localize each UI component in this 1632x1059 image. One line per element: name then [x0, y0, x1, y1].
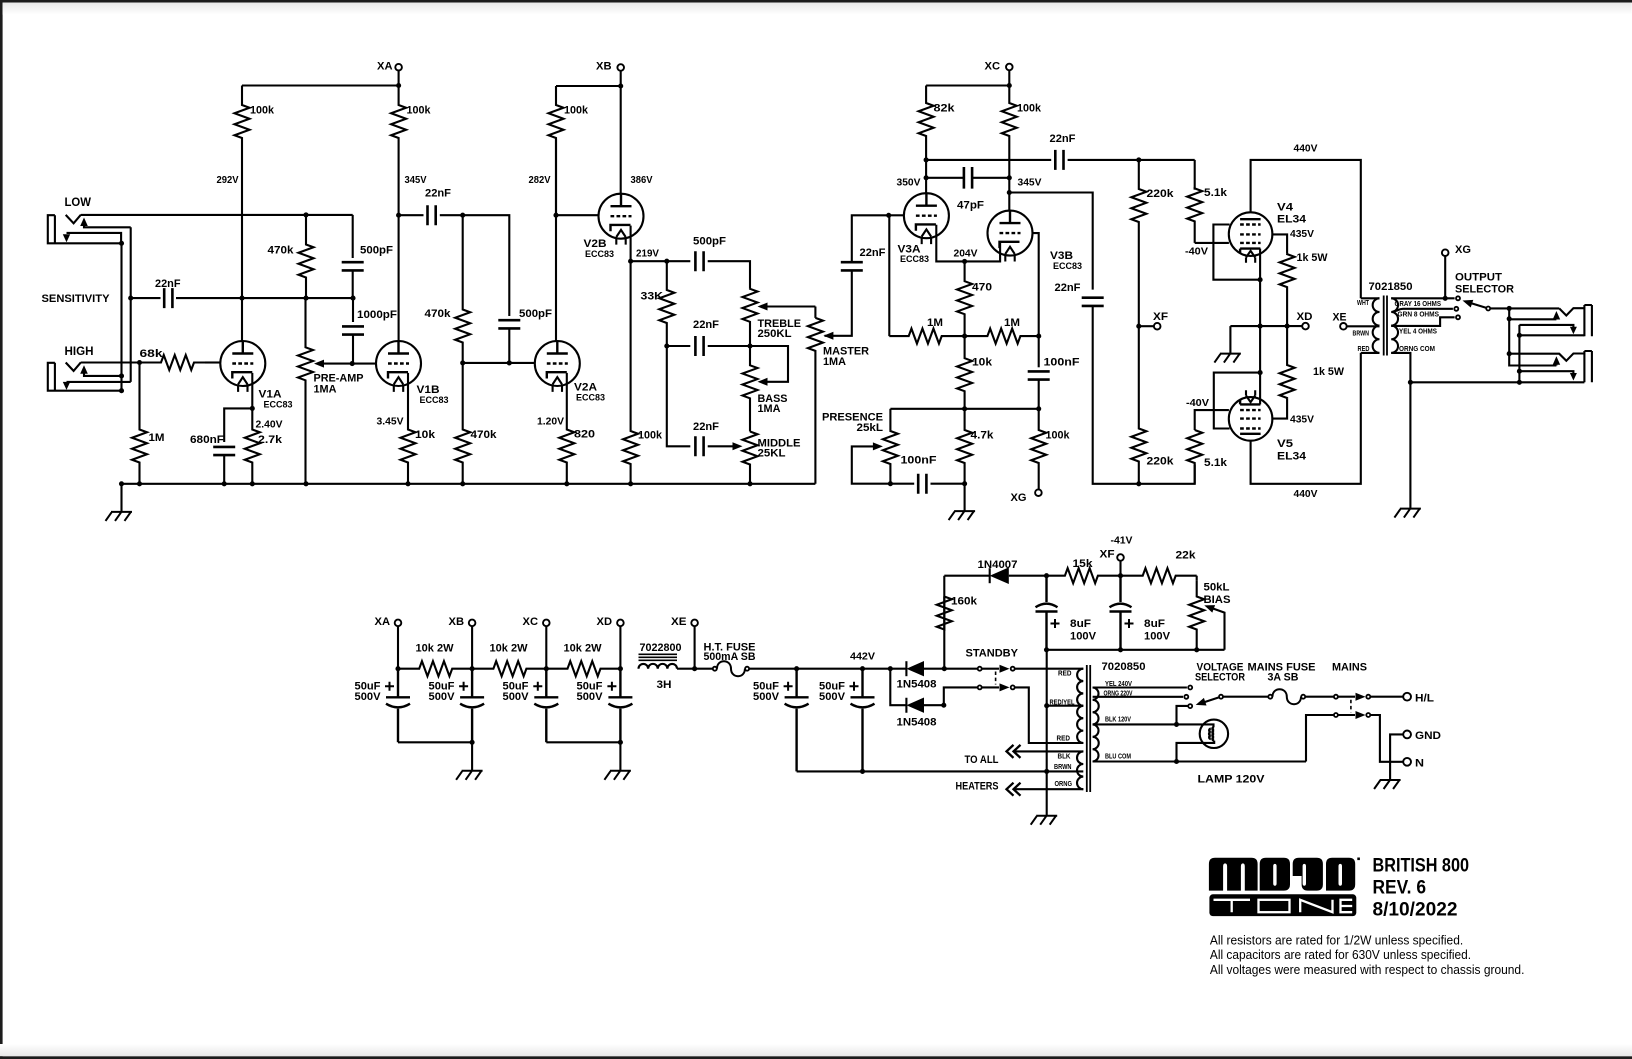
svg-text:1M: 1M: [927, 317, 943, 329]
svg-text:ECC83: ECC83: [420, 395, 449, 406]
svg-text:220k: 220k: [1147, 456, 1175, 468]
switch voltage selector arm contact: [1188, 704, 1192, 708]
logo registered mark: [1357, 858, 1360, 861]
wire mains pole2 right to N: [1371, 715, 1404, 762]
node XF terminal (bias feed): [1139, 325, 1154, 327]
junction 470k top: [460, 213, 465, 218]
junction 47pF right: [1007, 175, 1012, 180]
ground symbol (PI): [949, 511, 976, 520]
tube V2B ECC83 triode: [599, 194, 644, 239]
svg-text:HEATERS: HEATERS: [956, 781, 999, 793]
svg-text:442V: 442V: [850, 651, 875, 663]
svg-text:100V: 100V: [1144, 631, 1171, 643]
svg-text:100nF: 100nF: [901, 455, 937, 467]
wire XB to 100k: [556, 85, 621, 87]
capacitor 22nF to V3A grid: [841, 262, 863, 270]
jack HIGH frame: [48, 363, 67, 391]
svg-text:500V: 500V: [753, 691, 780, 703]
resistor 5.1k V4 grid stopper: [1194, 160, 1196, 190]
svg-text:386V: 386V: [631, 174, 653, 186]
junction V5 cathode/g3: [1258, 370, 1263, 375]
junction V1A cathode node: [250, 406, 255, 411]
resistor 470 PI tail upper: [957, 261, 972, 336]
wire LOW tip-switch vertical: [130, 227, 132, 382]
wire XC rail: [926, 84, 1009, 86]
svg-text:1MA: 1MA: [314, 384, 337, 396]
junction ground bus: [405, 481, 410, 486]
svg-text:500V: 500V: [355, 691, 382, 703]
logo TONE letters: [1214, 900, 1251, 912]
svg-text:22nF: 22nF: [1050, 133, 1076, 145]
svg-text:GRAY 16 OHMS: GRAY 16 OHMS: [1395, 301, 1442, 308]
svg-text:XG: XG: [1455, 244, 1471, 256]
jack HIGH ring contact + arrow: [67, 381, 131, 383]
capacitor 50uF 500V (XC): [534, 669, 558, 743]
jack HIGH tip contact: [66, 362, 81, 371]
ground symbol (mains GND): [1374, 780, 1401, 789]
svg-text:RED: RED: [1058, 671, 1072, 678]
svg-text:10k: 10k: [415, 429, 436, 441]
resistor 22k bias: [1121, 568, 1197, 583]
svg-text:33K: 33K: [641, 291, 664, 303]
wire selector common to jack: [1491, 307, 1560, 309]
potentiometer PRE-AMP 1MA body: [298, 298, 313, 484]
wire HIGH tip line to grid node: [81, 361, 140, 363]
wire V5 g3-cathode loop: [1214, 373, 1260, 429]
resistor 1M input load: [132, 363, 147, 484]
wire TO ALL heater lead: [1007, 745, 1021, 758]
jack LOW frame: [48, 215, 67, 243]
wire PT main ground line: [1046, 650, 1048, 816]
svg-text:204V: 204V: [954, 248, 978, 260]
junction V3A grid node: [886, 213, 891, 218]
svg-text:BRITISH 800: BRITISH 800: [1373, 856, 1470, 877]
diode 1N5408 upper: [905, 661, 907, 676]
svg-text:8uF: 8uF: [1144, 618, 1165, 630]
svg-text:82k: 82k: [934, 103, 956, 115]
tube V3B ECC83 triode: [988, 211, 1033, 256]
resistor 82k V3A plate: [919, 86, 934, 160]
ground symbol (filter 2): [604, 771, 631, 780]
wire OT BRWN lead to XE: [1347, 325, 1380, 327]
svg-text:345V: 345V: [405, 174, 427, 186]
switch MAINS link: [1350, 700, 1352, 712]
junction 220k bottom: [1136, 481, 1141, 486]
svg-text:470k: 470k: [471, 429, 498, 441]
svg-text:4.7k: 4.7k: [971, 430, 995, 442]
junction V4 cathode/g3: [1258, 277, 1263, 282]
wire sensitivity right: [176, 297, 242, 299]
wire master wiper: [825, 277, 852, 336]
svg-text:N: N: [1415, 758, 1424, 770]
junction ground bus: [564, 481, 569, 486]
wire presence wiper loop: [852, 446, 891, 483]
diode 1N5408 lower: [890, 669, 906, 713]
svg-text:ECC83: ECC83: [264, 400, 293, 411]
jack speaker 2 tip switch arrow: [1553, 356, 1561, 365]
potentiometer TREBLE 250KL body: [743, 289, 758, 346]
tube V1B ECC83 triode: [376, 341, 421, 386]
wire BLU COM line: [1093, 760, 1306, 762]
wire ground stem (PI): [964, 484, 966, 511]
resistor 100k V2A plate load: [549, 86, 564, 215]
svg-text:XD: XD: [1297, 311, 1313, 323]
svg-text:YEL 4 OHMS: YEL 4 OHMS: [1399, 328, 1437, 335]
node XD terminal (supply): [617, 620, 624, 627]
switch STANDBY link: [995, 672, 997, 685]
node XE terminal (supply): [691, 620, 698, 627]
node H/L terminal: [1403, 693, 1411, 701]
svg-text:GRN 8 OHMS: GRN 8 OHMS: [1398, 311, 1440, 318]
svg-text:282V: 282V: [529, 174, 551, 186]
junction 22nF mid node: [664, 343, 669, 348]
wire 680nF branch: [224, 408, 252, 442]
wire 33K branch down: [667, 346, 691, 446]
switch MAINS pole2: [1334, 713, 1338, 717]
svg-text:1k 5W: 1k 5W: [1297, 252, 1329, 264]
svg-text:500pF: 500pF: [693, 236, 726, 248]
logo TONE bar: [1209, 894, 1356, 916]
tube V4 EL34 pentode: [1229, 212, 1273, 256]
svg-text:50kL: 50kL: [1204, 582, 1230, 594]
svg-text:100nF: 100nF: [1044, 357, 1080, 369]
svg-text:22nF: 22nF: [425, 188, 451, 200]
svg-text:1MA: 1MA: [758, 403, 781, 415]
inductor choke 3H 7022800: [639, 664, 678, 669]
svg-text:BLK 120V: BLK 120V: [1105, 717, 1131, 724]
wire mains pole2 left: [1306, 715, 1334, 762]
logo MOJO letter j: [1293, 858, 1323, 891]
wire mid coupling wire: [242, 297, 353, 299]
svg-text:ECC83: ECC83: [576, 393, 605, 404]
wire 68k to V1A grid: [205, 361, 220, 363]
svg-text:XA: XA: [375, 616, 391, 628]
junction 8uF1 top: [1044, 573, 1049, 578]
wire bass wiper loop: [750, 346, 788, 382]
svg-text:8/10/2022: 8/10/2022: [1373, 899, 1458, 920]
junction presence cap node: [888, 481, 893, 486]
wire 22nF coupling V5 branch: [1009, 193, 1092, 290]
wire LOW tip line: [81, 214, 353, 216]
transformer PT HV winding: [1077, 669, 1083, 743]
node XC terminal (supply): [543, 620, 550, 627]
capacitor 22nF coupling V5: [1082, 298, 1104, 306]
tube V5 EL34 pentode: [1229, 397, 1273, 441]
svg-text:5.1k: 5.1k: [1204, 187, 1228, 199]
node XF terminal (bias out): [1117, 554, 1124, 561]
wire tone stack top: [631, 260, 667, 262]
capacitor 680nF cathode bypass: [213, 447, 235, 455]
svg-text:EL34: EL34: [1277, 451, 1307, 463]
resistor 10k 2W (XA-XB): [398, 661, 472, 676]
capacitor 500pF (V2A): [498, 320, 520, 328]
wire bias top line: [944, 575, 989, 577]
svg-text:100k: 100k: [250, 105, 275, 117]
svg-text:22k: 22k: [1176, 550, 1197, 562]
svg-text:470: 470: [972, 282, 992, 294]
resistor 4.7k PI tail lower: [957, 409, 972, 484]
wire 680nF bottom: [223, 455, 225, 484]
junction ground bus: [250, 481, 255, 486]
capacitor 47pF: [926, 177, 964, 179]
potentiometer BASS 1MA body: [743, 346, 758, 432]
potentiometer BIAS 50kL body: [1196, 576, 1198, 580]
wire 500pF to mid wire: [352, 271, 354, 299]
capacitor 8uF 100V (2): [1110, 576, 1132, 650]
node N terminal: [1403, 758, 1411, 766]
jack speaker 1 tip switch arrow: [1553, 311, 1561, 320]
wire presence node: [890, 408, 1038, 410]
svg-text:XC: XC: [985, 61, 1001, 73]
wire V3A cathode: [936, 225, 964, 262]
wire V2A plate line: [555, 139, 557, 341]
svg-text:1M: 1M: [1004, 317, 1020, 329]
svg-text:25KL: 25KL: [758, 448, 786, 460]
jack speaker 1 ring line: [1519, 325, 1573, 327]
wire bias tap: [943, 597, 945, 669]
node XG terminal (NFB): [1038, 483, 1040, 489]
svg-text:345V: 345V: [1018, 177, 1042, 189]
svg-text:435V: 435V: [1290, 414, 1314, 426]
resistor 470k (preamp pot feed): [299, 215, 314, 298]
svg-text:15k: 15k: [1073, 558, 1094, 570]
capacitor 50uF 500V (XE): [785, 669, 809, 772]
svg-text:10k 2W: 10k 2W: [416, 643, 455, 655]
switch STANDBY pole2: [978, 685, 982, 689]
jack speaker 2 ring line: [1519, 371, 1573, 373]
page border frame: [0, 0, 1632, 3]
svg-text:ORNG: ORNG: [1055, 781, 1073, 788]
wire V2B cathode lead: [630, 226, 632, 262]
resistor 100k V2B cathode: [623, 261, 638, 484]
svg-text:ORNG COM: ORNG COM: [1399, 346, 1435, 353]
wire V5 grid rail lower: [1093, 306, 1195, 484]
wire ground stem (input): [120, 484, 122, 512]
svg-text:SELECTOR: SELECTOR: [1455, 284, 1514, 296]
svg-text:XF: XF: [1153, 311, 1168, 323]
potentiometer MIDDLE 25KL body: [743, 432, 758, 484]
resistor 470k (V2A grid upper): [455, 215, 470, 363]
svg-text:440V: 440V: [1294, 143, 1318, 155]
potentiometer PRESENCE 25kL body: [889, 409, 891, 431]
svg-text:XB: XB: [449, 616, 465, 628]
svg-text:100k: 100k: [564, 105, 589, 117]
jack LOW ring contact + arrow: [67, 233, 122, 243]
transformer OT secondary winding: [1391, 298, 1398, 353]
svg-text:1N5408: 1N5408: [897, 679, 937, 691]
resistor 10k V1B cathode: [401, 429, 416, 484]
svg-text:YEL 240V: YEL 240V: [1105, 681, 1132, 688]
wire V1A cathode lead: [251, 373, 253, 409]
junction ground bus: [628, 481, 633, 486]
tube V3A ECC83 triode: [904, 193, 949, 238]
capacitor 100nF NFB: [1038, 336, 1040, 367]
svg-text:GND: GND: [1415, 730, 1441, 742]
node XB terminal (supply): [469, 620, 476, 627]
capacitor 22nF coupling (V1B): [399, 214, 424, 216]
junction HIGH tip node: [137, 360, 142, 365]
svg-text:7021850: 7021850: [1369, 281, 1413, 293]
svg-text:470k: 470k: [425, 308, 452, 320]
resistor 100k V1A plate load: [235, 86, 250, 216]
wire filter return line: [797, 770, 1084, 772]
svg-text:2.7k: 2.7k: [258, 434, 283, 446]
junction 219V node: [628, 259, 633, 264]
junction ground bus: [747, 481, 752, 486]
wire bias wiper: [1210, 607, 1225, 650]
svg-text:BLK: BLK: [1058, 754, 1071, 761]
svg-text:All capacitors are rated for 6: All capacitors are rated for 630V unless…: [1210, 947, 1471, 962]
node XA terminal (supply): [395, 620, 402, 627]
resistor 2.7k cathode: [245, 408, 260, 483]
ground symbol (OT common): [1394, 509, 1421, 518]
ground symbol (input stage): [106, 512, 133, 521]
wire V1A plate line: [241, 215, 243, 341]
svg-text:22nF: 22nF: [693, 319, 719, 331]
wire selector arm drop: [1177, 706, 1188, 725]
wire jack2 tip line: [1509, 354, 1584, 361]
capacitor 500pF bright: [342, 262, 364, 270]
svg-text:22nF: 22nF: [1055, 282, 1081, 294]
svg-text:500V: 500V: [429, 691, 456, 703]
svg-text:MAINS: MAINS: [1332, 662, 1367, 674]
node XC terminal: [1006, 64, 1013, 71]
wire main ground bus (preamp): [122, 483, 816, 485]
resistor 220k V4 grid leak: [1131, 160, 1146, 326]
wire jack common vertical B: [1518, 325, 1520, 382]
junction ground bus: [222, 481, 227, 486]
wire 1M riser: [888, 215, 890, 336]
wire fuse to rectifier: [749, 668, 906, 670]
svg-text:-40V: -40V: [1185, 246, 1208, 258]
svg-text:219V: 219V: [636, 248, 659, 260]
wire V1B cathode lead: [407, 373, 409, 429]
wire V3A plate line: [925, 160, 927, 194]
junction 47pF left: [924, 175, 929, 180]
resistor 470k (V2A grid lower): [455, 363, 470, 484]
ground symbol (filter 1): [456, 771, 483, 780]
logo MOJO letter o2: [1326, 858, 1355, 891]
svg-text:1MA: 1MA: [823, 356, 846, 368]
wire GRN 8 ohm tap: [1393, 309, 1453, 312]
wire OT WHT lead: [1361, 297, 1380, 299]
capacitor 1000pF: [352, 298, 354, 322]
wire V4 g2 to screen resistor: [1271, 234, 1287, 253]
jack speaker 1 sleeve: [1519, 334, 1584, 336]
switch MAINS pole1: [1334, 695, 1338, 699]
junction bass top node: [747, 343, 752, 348]
wire cap pair 2 bottoms: [546, 741, 620, 743]
svg-text:160k: 160k: [951, 596, 978, 608]
wire jack feed vertical A: [1509, 308, 1556, 365]
node XG terminal (output): [1442, 249, 1449, 256]
svg-text:10k: 10k: [972, 357, 993, 369]
jack LOW tip contact: [66, 215, 81, 224]
junction ground bus: [303, 481, 308, 486]
svg-text:BRWN: BRWN: [1054, 764, 1072, 771]
wire ORNG COM tap: [1391, 353, 1410, 509]
wire V2B plate lead: [620, 86, 622, 194]
capacitor 50uF 500V (XB): [460, 669, 484, 743]
wire master to grid: [852, 215, 889, 262]
wire HEATERS lead: [1007, 783, 1021, 796]
svg-text:5.1k: 5.1k: [1204, 457, 1228, 469]
switch voltage selector lever: [1201, 698, 1219, 704]
lamp LAMP 120V: [1200, 720, 1228, 748]
svg-text:22nF: 22nF: [693, 421, 719, 433]
wire LOW sleeve to ground bus: [67, 243, 122, 390]
svg-text:680nF: 680nF: [190, 434, 224, 446]
svg-text:100k: 100k: [407, 105, 432, 117]
svg-text:REV. 6: REV. 6: [1373, 877, 1427, 898]
capacitor 50uF 500V (XA): [386, 669, 410, 743]
svg-text:500mA SB: 500mA SB: [704, 651, 756, 663]
svg-text:-41V: -41V: [1111, 535, 1133, 547]
wire ORNG 220V tap: [1093, 696, 1183, 698]
wire 15k to XF: [1118, 573, 1123, 578]
jack speaker 2 frame: [1584, 351, 1592, 382]
wire HIGH sleeve: [67, 390, 122, 392]
svg-text:1N4007: 1N4007: [978, 559, 1018, 571]
svg-text:100k: 100k: [638, 430, 663, 442]
svg-text:470k: 470k: [268, 245, 295, 257]
junction preamp wiper/1000pF: [350, 361, 355, 366]
node GND terminal: [1403, 731, 1411, 739]
svg-text:22nF: 22nF: [155, 278, 181, 290]
capacitor 22nF bass-mid: [667, 345, 691, 347]
svg-text:OUTPUT: OUTPUT: [1455, 272, 1502, 284]
wire fuse to mains switch: [1306, 696, 1334, 698]
svg-text:1N5408: 1N5408: [897, 717, 937, 729]
ground symbol (power cathodes): [1214, 354, 1241, 363]
resistor 10k 2W (XB-XC): [472, 661, 546, 676]
node XB terminal: [617, 64, 624, 71]
wire 500pF branch: [352, 215, 354, 258]
svg-text:All resistors are rated for 1/: All resistors are rated for 1/2W unless …: [1210, 933, 1463, 948]
wire V4 plate to OT: [1251, 160, 1361, 298]
potentiometer MASTER 1MA body: [814, 307, 816, 318]
resistor 15k bias: [1047, 568, 1121, 583]
svg-text:500V: 500V: [819, 691, 846, 703]
wire to 500pF2: [463, 215, 510, 316]
svg-text:220k: 220k: [1147, 188, 1175, 200]
transformer OT primary winding: [1373, 298, 1380, 353]
resistor 100k V3B plate: [1002, 86, 1017, 178]
svg-text:10k 2W: 10k 2W: [490, 643, 529, 655]
wire V3B plate line: [1008, 178, 1010, 211]
capacitor 22nF coupling V4: [926, 159, 1051, 161]
svg-text:SENSITIVITY: SENSITIVITY: [42, 293, 111, 305]
wire V1B plate line: [398, 215, 400, 341]
svg-text:RED: RED: [1358, 346, 1370, 353]
switch output selector contacts: [1456, 296, 1460, 300]
wire V2A cathode lead: [566, 373, 568, 429]
wire XA rail: [242, 84, 399, 86]
svg-text:25kL: 25kL: [857, 422, 884, 434]
svg-text:XF: XF: [1100, 549, 1115, 561]
svg-text:XA: XA: [377, 61, 393, 73]
transformer PT heater winding: [1077, 751, 1083, 789]
resistor 68k grid stopper: [140, 355, 206, 370]
resistor 10k PI tail: [957, 336, 972, 409]
fuse H.T. FUSE 500mA SB: [717, 661, 745, 676]
jack speaker 1 frame: [1584, 305, 1592, 336]
svg-text:100V: 100V: [1070, 631, 1097, 643]
svg-text:EL34: EL34: [1277, 214, 1307, 226]
junction NFB node: [1036, 334, 1041, 339]
resistor 220k V5 grid leak: [1131, 326, 1146, 484]
resistor 5.1k V5 grid stopper: [1195, 410, 1229, 430]
